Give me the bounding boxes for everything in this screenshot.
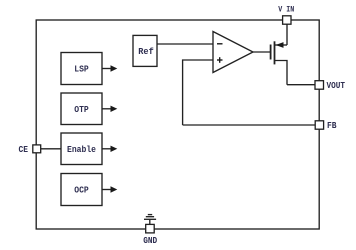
block OCP	[61, 174, 102, 206]
arrowhead Enable	[111, 146, 118, 152]
op-amp minus sign	[217, 43, 223, 45]
wire Ref to op-amp inverting input	[157, 43, 213, 45]
ground symbol top bar	[148, 214, 152, 216]
op-amp plus sign	[217, 59, 223, 61]
op-amp U1	[213, 32, 253, 73]
svg-text:VOUT: VOUT	[327, 80, 346, 91]
arrowhead OCP	[111, 186, 118, 192]
transistor Q1 source lead	[275, 44, 288, 46]
svg-text:LSP: LSP	[74, 64, 89, 75]
block Enable	[61, 133, 102, 165]
arrowhead OTP	[111, 106, 118, 112]
pin VIN pad	[283, 16, 291, 24]
wire source to VIN pin	[286, 24, 288, 45]
transistor Q1 drain lead	[275, 61, 288, 85]
wire Enable output	[102, 148, 112, 150]
ground symbol stem	[149, 219, 151, 224]
svg-text:GND: GND	[143, 235, 157, 246]
block OTP	[61, 93, 102, 125]
pin GND pad	[146, 224, 155, 233]
wire drain to VOUT pin	[287, 84, 315, 86]
ground symbol middle bar	[146, 216, 154, 218]
pin FB pad	[315, 121, 323, 129]
wire op-amp non-inverting input	[183, 60, 213, 125]
svg-text:FB: FB	[327, 120, 337, 131]
ground symbol bottom bar	[144, 218, 156, 220]
wire OCP output	[102, 189, 112, 191]
svg-text:OTP: OTP	[74, 104, 89, 115]
svg-text:V IN: V IN	[278, 5, 294, 15]
wire op-amp output to gate	[253, 51, 271, 53]
transistor Q1 gate bar	[270, 45, 272, 60]
IC boundary box	[36, 20, 319, 229]
svg-text:CE: CE	[19, 144, 29, 155]
svg-text:Enable: Enable	[67, 144, 96, 155]
wire CE to Enable	[41, 148, 61, 150]
block LSP	[61, 53, 102, 85]
transistor Q1 channel bar	[274, 41, 276, 64]
svg-text:Ref: Ref	[138, 46, 154, 57]
svg-text:OCP: OCP	[74, 185, 89, 196]
block Ref	[133, 35, 157, 66]
wire feedback FB to op-amp	[183, 124, 315, 126]
pin VOUT pad	[315, 81, 324, 90]
wire OTP output	[102, 108, 112, 110]
pin CE pad	[33, 145, 41, 153]
transistor Q1 source arrow	[276, 42, 284, 48]
arrowhead LSP	[111, 65, 118, 71]
wire LSP output	[102, 68, 112, 70]
